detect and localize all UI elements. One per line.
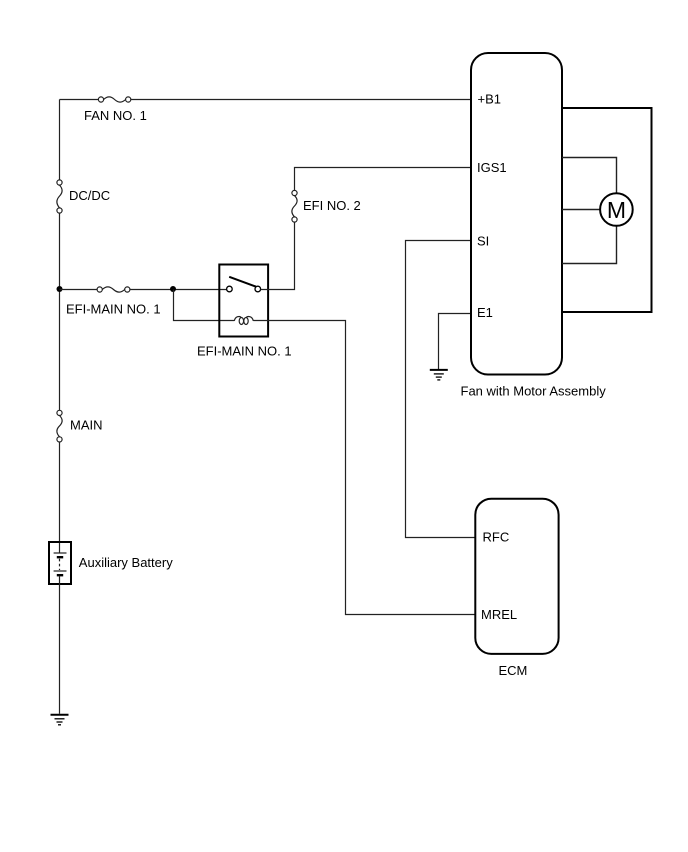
svg-text:EFI NO. 2: EFI NO. 2 xyxy=(303,198,361,213)
wire: fuse to relay switch contact xyxy=(130,289,227,291)
fan with motor assembly box U1 xyxy=(471,53,562,375)
relay switch contact xyxy=(227,277,261,292)
svg-text:+B1: +B1 xyxy=(478,92,502,107)
svg-text:E1: E1 xyxy=(477,305,493,320)
svg-text:ECM: ECM xyxy=(499,663,528,678)
ground (battery) xyxy=(51,715,69,725)
relay EFI-MAIN NO. 1 box xyxy=(219,265,268,337)
wire: junction down to relay coil xyxy=(174,290,235,321)
relay coil xyxy=(234,317,253,325)
wire: branch to EFI-MAIN NO. 1 fuse xyxy=(60,289,98,291)
ECM box xyxy=(475,499,558,654)
svg-text:Fan with Motor Assembly: Fan with Motor Assembly xyxy=(461,384,607,399)
node: junction before relay xyxy=(170,286,176,292)
svg-text:FAN NO. 1: FAN NO. 1 xyxy=(84,108,147,123)
wire: left vertical rail middle xyxy=(59,213,61,410)
node: junction at left rail / EFI-MAIN branch xyxy=(57,286,63,292)
wire: E1 to ground xyxy=(439,314,472,370)
wire: motor outer loop xyxy=(562,108,652,312)
svg-text:EFI-MAIN NO. 1: EFI-MAIN NO. 1 xyxy=(66,302,161,317)
wire: relay switch to EFI NO. 2 fuse xyxy=(261,222,295,289)
wire: SI to RFC xyxy=(406,241,476,538)
svg-text:EFI-MAIN NO. 1: EFI-MAIN NO. 1 xyxy=(197,344,292,359)
svg-text:DC/DC: DC/DC xyxy=(69,188,110,203)
svg-text:SI: SI xyxy=(477,234,489,249)
wire: motor inner top branch xyxy=(562,158,617,194)
battery BT1 (Auxiliary Battery) xyxy=(49,542,71,584)
svg-text:RFC: RFC xyxy=(483,530,510,545)
fuse DC/DC xyxy=(57,180,62,213)
svg-text:Auxiliary Battery: Auxiliary Battery xyxy=(79,555,173,570)
svg-text:MREL: MREL xyxy=(481,607,517,622)
svg-text:IGS1: IGS1 xyxy=(477,160,507,175)
wire: relay coil to MREL xyxy=(253,321,475,615)
wire: MAIN fuse to battery xyxy=(59,442,61,553)
fuse EFI-MAIN NO. 1 xyxy=(97,287,130,292)
motor M1 xyxy=(600,193,633,226)
wire: motor inner middle branch xyxy=(562,209,600,211)
ground (E1) xyxy=(430,370,448,380)
wire: top feed from battery rail to +B1 xyxy=(60,99,472,101)
wire: EFI NO. 2 fuse to IGS1 xyxy=(295,168,472,191)
svg-text:MAIN: MAIN xyxy=(70,418,103,433)
fuse EFI NO. 2 xyxy=(292,190,297,222)
fuse MAIN xyxy=(57,410,62,442)
wire: left vertical rail upper xyxy=(59,100,61,180)
wire: battery to ground xyxy=(59,576,61,713)
fuse FAN NO. 1 xyxy=(98,97,130,102)
svg-text:M: M xyxy=(607,197,626,223)
wire: motor inner bottom branch xyxy=(562,226,617,264)
